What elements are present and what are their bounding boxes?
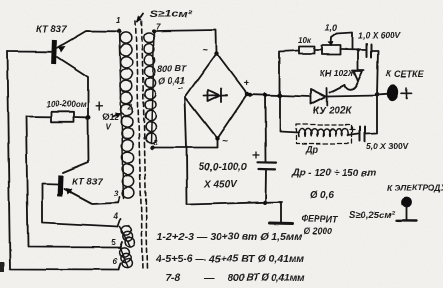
node +12V junction: [86, 115, 91, 120]
svg-text:–: –: [178, 83, 184, 94]
wire secondary bottom to bridge: [152, 139, 217, 148]
node bridge plus: [245, 92, 249, 96]
wire C3 to main line: [365, 96, 377, 134]
transformer feedback winding 5-6: [119, 247, 132, 267]
RC chain top: wire up: [280, 51, 300, 96]
wire R1 right: [74, 116, 86, 118]
potentiometer R3 1.0: [322, 46, 341, 55]
capacitor C1 50-100uF wire top: [264, 95, 267, 162]
svg-text:8: 8: [153, 138, 158, 147]
resistor R1 100-200om: [51, 112, 74, 122]
svg-text:7-8: 7-8: [165, 272, 180, 284]
resistor R2 10k: [299, 47, 315, 54]
inductor Dr wire left: [280, 95, 299, 132]
wire secondary top to bridge: [154, 30, 217, 53]
svg-text:10к: 10к: [298, 36, 312, 45]
svg-text:5,0 X 300V: 5,0 X 300V: [366, 141, 409, 151]
diode bridge outline: [185, 54, 247, 139]
output terminal K SETKE: [377, 93, 387, 96]
node bridge bottom: [215, 136, 219, 140]
wire left outer vertical to winding 6: [7, 52, 119, 270]
transformer core dashed: [136, 21, 144, 270]
svg-text:1,0: 1,0: [325, 23, 338, 33]
node terminal 4 tick: [118, 220, 121, 227]
bridge diode symbol: [204, 94, 227, 97]
electrode symbol: [401, 197, 412, 208]
svg-text:X 450V: X 450V: [203, 179, 238, 190]
node terminal 3 tick: [118, 197, 120, 203]
node terminal 6 tick: [119, 263, 121, 270]
wire Q1 emitter to winding 1: [57, 31, 119, 48]
transistor Q1 base bar: [51, 40, 57, 64]
svg-text:4-5+5-6 — 45+45 ВТ Ø 0,41мм: 4-5+5-6 — 45+45 ВТ Ø 0,41мм: [155, 253, 305, 265]
svg-text:Др: Др: [305, 144, 318, 154]
transformer secondary winding 7-8: [144, 31, 156, 143]
capacitor C2 1.0x600V: [366, 44, 368, 58]
svg-text:К ЭЛЕКТРОДУ: К ЭЛЕКТРОДУ: [387, 183, 443, 193]
thyristor VS1 KU202K: [311, 89, 326, 104]
svg-text:3: 3: [114, 189, 119, 198]
wire Q1 collector down: [57, 57, 88, 118]
transistor Q2 KT837 bar: [57, 175, 63, 197]
svg-text:ФЕРРИТ: ФЕРРИТ: [301, 214, 340, 224]
svg-text:Ø 0,6: Ø 0,6: [310, 190, 335, 201]
capacitor C1 wire bottom: [265, 170, 268, 203]
transformer primary winding 1-2-3: [119, 31, 134, 199]
svg-text:1: 1: [116, 16, 121, 25]
svg-text:50,0-100,0: 50,0-100,0: [199, 162, 247, 173]
svg-text:+: +: [243, 78, 249, 89]
wire C2 to main line: [372, 51, 379, 95]
Q2 emitter arrow: [66, 188, 73, 195]
Q1 emitter arrow: [59, 46, 66, 53]
svg-text:100-200ом: 100-200ом: [46, 100, 86, 109]
svg-text:S≥1см²: S≥1см²: [149, 9, 193, 20]
wire Q1 base: [7, 51, 52, 53]
wire Dr to C3: [348, 134, 359, 136]
wire junction down to Q2: [63, 118, 89, 173]
svg-text:К СЕТКЕ: К СЕТКЕ: [386, 69, 425, 79]
capacitor C3 5.0x300V: [359, 127, 361, 142]
ground: [280, 202, 282, 222]
svg-text:КТ 837: КТ 837: [36, 24, 67, 35]
wire pot to C2: [341, 49, 367, 52]
wire R1 left: [26, 116, 51, 118]
wire R1-left vertical to winding 5: [26, 117, 120, 248]
svg-text:800 ВТ Ø 0,41мм: 800 ВТ Ø 0,41мм: [228, 273, 305, 284]
svg-text:S≥0,25см²: S≥0,25см²: [349, 210, 395, 221]
wire Q2 base: [42, 183, 58, 186]
svg-text:5: 5: [111, 238, 116, 247]
svg-text:800 ВТ: 800 ВТ: [157, 64, 187, 74]
svg-text:КН 102Ж: КН 102Ж: [320, 68, 357, 78]
label C3 plus: [350, 127, 355, 132]
node bridge top: [214, 51, 218, 55]
wire Q2 emitter to winding 3: [64, 189, 118, 204]
capacitor C1 plates: [258, 161, 277, 164]
svg-text:V: V: [105, 123, 111, 132]
wire bottom rail: [187, 202, 282, 205]
wire main plus line: [247, 95, 311, 97]
svg-text:Др - 120 ÷ 150 вт: Др - 120 ÷ 150 вт: [291, 168, 376, 179]
scan smudge: [0, 262, 5, 272]
svg-text:—: —: [203, 272, 215, 284]
svg-text:Ø 2000: Ø 2000: [303, 226, 333, 236]
svg-text:1-2+2-3 — 30+30 вт Ø 1,5мм: 1-2+2-3 — 30+30 вт Ø 1,5мм: [157, 231, 302, 243]
wire thyristor to output: [327, 96, 377, 97]
inductor Dr dashed box: [297, 125, 352, 144]
wire Q2-base vertical to winding 4: [42, 185, 118, 227]
label +12V: [96, 103, 102, 111]
wire R2 to pot: [315, 49, 323, 51]
svg-text:КУ 202К: КУ 202К: [313, 106, 352, 117]
node terminal 5 tick: [120, 242, 122, 248]
node terminal 1: [117, 29, 121, 33]
svg-text:~: ~: [222, 136, 228, 147]
svg-text:КТ 837: КТ 837: [72, 177, 103, 188]
inductor Dr coil: [299, 128, 349, 136]
thyristor gate wire: [330, 85, 345, 93]
svg-text:1,0 X 600V: 1,0 X 600V: [358, 30, 401, 40]
wire tap arrow to node 2: [113, 114, 121, 117]
node terminal 7: [152, 29, 156, 33]
svg-text:4: 4: [113, 212, 119, 221]
transformer feedback winding 4-5: [120, 226, 135, 246]
svg-text:~: ~: [202, 45, 208, 56]
dinistor VD KN102: [352, 70, 364, 72]
svg-text:6: 6: [113, 257, 118, 266]
wire bridge minus down: [185, 98, 187, 205]
label C1 plus: [253, 152, 259, 158]
node terminal 8: [150, 145, 154, 149]
